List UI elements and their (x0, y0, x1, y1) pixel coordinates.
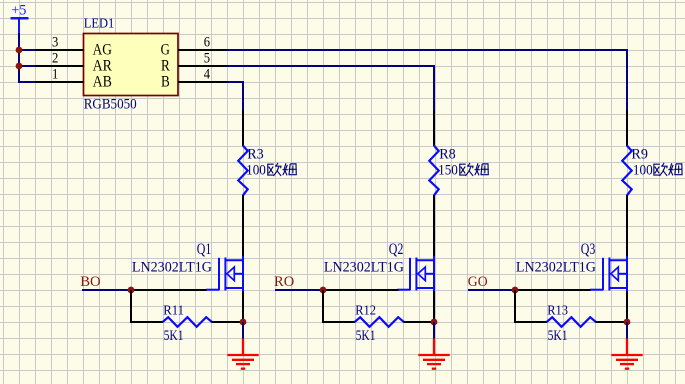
power +5 symbol (11, 3, 29, 34)
svg-text:R8: R8 (439, 147, 456, 163)
svg-text:AR: AR (93, 58, 113, 75)
svg-text:Q1: Q1 (197, 241, 212, 258)
svg-text:5K1: 5K1 (164, 328, 184, 344)
svg-text:100: 100 (633, 163, 653, 179)
resistor R9 (622, 146, 648, 196)
svg-text:4: 4 (204, 67, 211, 83)
wire +5 to pin2 (18, 65, 35, 67)
resistor R12 (355, 303, 404, 344)
wire black R3 to Q1 drain (242, 195, 244, 257)
ground col 1 (227, 339, 258, 369)
wire black junction down to R12 (323, 290, 355, 322)
wire net R: pin5 to column B (227, 66, 434, 111)
svg-text:5K1: 5K1 (548, 328, 568, 344)
value 150欧姆 (R8) (438, 163, 489, 179)
pin 3 (AG) (35, 35, 112, 59)
junction dot GO node (512, 287, 519, 294)
svg-text:AB: AB (93, 74, 112, 91)
wire GO to junction (468, 289, 515, 291)
wire +5 to pin1 (18, 81, 35, 83)
junction dot BO node (128, 287, 135, 294)
svg-text:Q2: Q2 (389, 241, 404, 258)
svg-text:5: 5 (204, 51, 210, 67)
svg-text:6: 6 (204, 35, 211, 51)
resistor R3 (238, 146, 263, 196)
pin 4 (B) (161, 67, 228, 91)
pin 5 (R) (161, 51, 228, 75)
svg-text:+5: +5 (11, 3, 26, 19)
junction dot rail/pin3 (16, 47, 23, 54)
svg-text:LN2302LT1G: LN2302LT1G (516, 259, 597, 275)
svg-text:R9: R9 (631, 147, 648, 163)
wire +5 to pin3 (18, 49, 35, 51)
svg-text:5K1: 5K1 (356, 328, 376, 344)
wire net B: pin4 to column A (227, 82, 243, 111)
wire stub to ground 3 (626, 322, 628, 339)
wire black junction down to R13 (515, 290, 547, 322)
wire black above R8 (433, 110, 435, 146)
transistor Q3 (516, 241, 627, 292)
wire BO to junction (82, 289, 131, 291)
wire black above R9 (626, 110, 628, 146)
svg-text:R13: R13 (547, 303, 568, 318)
wire black R13 to source node (596, 321, 628, 323)
wire RO to junction (275, 289, 323, 291)
pin 1 (AB) (35, 67, 112, 91)
svg-text:LN2302LT1G: LN2302LT1G (132, 259, 213, 275)
wire black Q2 source down (433, 291, 435, 322)
svg-text:1: 1 (52, 67, 58, 83)
wire black junction to Q1 gate (131, 289, 207, 291)
wire stub to ground 2 (433, 322, 435, 339)
wire black R8 to Q2 drain (433, 195, 435, 257)
wire black R11 to source node (212, 321, 244, 323)
junction dot RO node (320, 287, 327, 294)
svg-text:G: G (161, 42, 170, 59)
wire black junction down to R11 (131, 290, 163, 322)
svg-text:2: 2 (52, 51, 58, 67)
junction dot rail/pin2 (16, 63, 23, 70)
wire net G: pin6 to column C (227, 50, 627, 111)
junction dot Q2 source node (431, 319, 438, 326)
svg-text:LN2302LT1G: LN2302LT1G (324, 259, 405, 275)
svg-text:R: R (161, 58, 170, 75)
resistor R8 (429, 146, 455, 196)
svg-text:150: 150 (438, 163, 458, 179)
wire black Q3 source down (626, 291, 628, 322)
wire black junction to Q2 gate (323, 289, 399, 291)
svg-text:AG: AG (93, 42, 112, 59)
ground col 3 (611, 339, 642, 369)
pin 2 (AR) (35, 51, 112, 75)
svg-text:GO: GO (468, 274, 488, 290)
component LED1 body (84, 16, 179, 112)
wire black R9 to Q3 drain (626, 195, 628, 257)
resistor R11 (163, 303, 212, 344)
svg-text:LED1: LED1 (84, 16, 115, 31)
svg-text:R12: R12 (355, 303, 376, 318)
junction dot Q1 source node (240, 319, 247, 326)
value 100欧姆 (R3) (246, 163, 297, 179)
pin 6 (G) (161, 35, 228, 59)
transistor Q1 (132, 241, 243, 292)
svg-text:R3: R3 (247, 147, 264, 163)
resistor R13 (547, 303, 596, 344)
value 100欧姆 (R9) (633, 163, 683, 179)
wire stub to ground 1 (242, 322, 244, 339)
transistor Q2 (324, 241, 434, 292)
svg-text:RO: RO (274, 274, 294, 290)
svg-text:RGB5050: RGB5050 (84, 97, 137, 113)
svg-text:BO: BO (80, 274, 101, 290)
svg-text:Q3: Q3 (581, 241, 596, 258)
wire black R12 to source node (404, 321, 434, 323)
wire black above R3 (242, 110, 244, 146)
ground col 2 (418, 339, 449, 369)
wire black junction to Q3 gate (515, 289, 591, 291)
wire black Q1 source down (242, 291, 244, 322)
svg-text:3: 3 (52, 35, 58, 51)
svg-text:R11: R11 (163, 303, 184, 318)
wire +5 rail vertical (18, 33, 20, 83)
junction dot Q3 source node (624, 319, 631, 326)
svg-text:100: 100 (246, 163, 266, 179)
svg-text:B: B (161, 74, 170, 91)
